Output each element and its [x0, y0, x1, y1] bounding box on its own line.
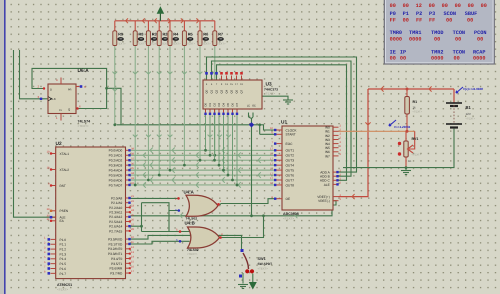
svg-text:OUT6: OUT6 [286, 173, 295, 177]
svg-text:R5: R5 [188, 31, 194, 36]
svg-text:<TEXT>: <TEXT> [413, 111, 423, 114]
svg-text:D: D [50, 88, 52, 92]
svg-text:U2: U2 [56, 141, 62, 147]
svg-text:P3.2/INT0: P3.2/INT0 [108, 247, 123, 251]
svg-text:<TEXT>: <TEXT> [216, 43, 226, 46]
svg-text:P1.5: P1.5 [60, 262, 67, 266]
svg-text:00: 00 [446, 18, 452, 24]
svg-text:00: 00 [400, 56, 406, 62]
svg-text:R3: R3 [152, 31, 158, 36]
svg-text:1K: 1K [408, 159, 412, 163]
svg-text:D1: D1 [208, 102, 212, 106]
svg-text:IE: IE [390, 49, 396, 55]
svg-text:P0: P0 [390, 11, 396, 17]
svg-text:V=+1.23031: V=+1.23031 [394, 125, 411, 129]
svg-text:B1: B1 [466, 105, 472, 110]
svg-text:IP: IP [400, 49, 406, 55]
svg-text:LE: LE [247, 105, 250, 108]
svg-text:12V: 12V [466, 112, 471, 116]
svg-text:D4: D4 [222, 102, 226, 106]
svg-text:P1.1: P1.1 [60, 243, 67, 247]
svg-text:P1.7: P1.7 [60, 272, 67, 276]
svg-text:P1.0: P1.0 [60, 238, 67, 242]
svg-text:IN7: IN7 [325, 154, 330, 158]
svg-text:P3.0/RXD: P3.0/RXD [108, 238, 123, 242]
svg-text:<TEXT>: <TEXT> [57, 288, 68, 292]
svg-text:ADC0808: ADC0808 [283, 212, 299, 216]
svg-text:0000: 0000 [390, 36, 402, 42]
svg-text:00: 00 [477, 36, 483, 42]
svg-text:Q4: Q4 [225, 89, 229, 93]
svg-text:SBUF: SBUF [465, 11, 477, 17]
svg-text:EOC: EOC [286, 142, 294, 146]
svg-text:P3.4/T0: P3.4/T0 [111, 257, 122, 261]
svg-text:R1: R1 [413, 100, 418, 104]
svg-text:SW1: SW1 [258, 257, 266, 261]
svg-text:OUT1: OUT1 [286, 149, 295, 153]
svg-text:P3.5/T1: P3.5/T1 [111, 262, 122, 266]
svg-text:<TEXT>: <TEXT> [258, 267, 269, 271]
svg-text:D5: D5 [226, 102, 230, 106]
svg-text:P3: P3 [429, 11, 435, 17]
svg-text:00: 00 [403, 3, 409, 9]
svg-text:<TEXT>: <TEXT> [185, 43, 195, 46]
svg-text:U4:A: U4:A [184, 190, 195, 195]
svg-text:PR: PR [68, 89, 72, 92]
svg-text:OE: OE [252, 105, 256, 108]
svg-text:P0.7/AD7: P0.7/AD7 [109, 183, 123, 187]
svg-text:Q7: Q7 [240, 89, 244, 93]
svg-text:TMOD: TMOD [431, 30, 443, 36]
svg-text:12: 12 [416, 3, 422, 9]
svg-text:TMR1: TMR1 [409, 30, 421, 36]
svg-text:Q3: Q3 [220, 89, 224, 93]
svg-text:U4:B: U4:B [185, 221, 195, 226]
svg-text:P2.7/A15: P2.7/A15 [109, 229, 122, 233]
svg-text:74LS74: 74LS74 [78, 120, 91, 124]
svg-text:AT89C51: AT89C51 [57, 283, 72, 287]
svg-text:Q1: Q1 [210, 89, 214, 93]
svg-text:P2.2/A10: P2.2/A10 [109, 206, 122, 210]
svg-text:00: 00 [390, 56, 396, 62]
svg-text:0000: 0000 [473, 56, 485, 62]
svg-text:ALE: ALE [324, 183, 330, 187]
svg-text:<TEXT>: <TEXT> [264, 92, 275, 96]
svg-text:R4: R4 [173, 31, 179, 36]
svg-text:P1.2: P1.2 [60, 248, 67, 252]
svg-text:P2.3/A11: P2.3/A11 [109, 211, 122, 215]
svg-text:P1: P1 [403, 11, 409, 17]
svg-text:Q6: Q6 [235, 89, 239, 93]
svg-text:FF: FF [390, 18, 396, 24]
svg-text:00: 00 [454, 56, 460, 62]
svg-text:D3: D3 [217, 102, 221, 106]
svg-text:R7: R7 [218, 31, 223, 36]
svg-text:U1: U1 [281, 120, 287, 126]
svg-text:0000: 0000 [431, 56, 443, 62]
svg-text:OE: OE [286, 197, 291, 201]
svg-text:OUT4: OUT4 [286, 164, 295, 168]
svg-text:Q5: Q5 [230, 89, 234, 93]
svg-text:XTAL2: XTAL2 [60, 168, 70, 172]
svg-text:P3.3/INT1: P3.3/INT1 [108, 252, 123, 256]
svg-text:00: 00 [455, 36, 461, 42]
svg-text:RV1: RV1 [412, 137, 419, 141]
svg-text:P2.0/A8: P2.0/A8 [111, 196, 123, 200]
svg-text:D2: D2 [213, 102, 217, 106]
svg-text:00: 00 [390, 3, 396, 9]
svg-text:Q2: Q2 [215, 89, 219, 93]
svg-text:00: 00 [467, 18, 473, 24]
svg-text:<TEXT>: <TEXT> [187, 252, 198, 256]
svg-text:P0.1/AD1: P0.1/AD1 [109, 154, 123, 158]
svg-text:00: 00 [468, 3, 474, 9]
svg-text:V(v)=+11.9928: V(v)=+11.9928 [463, 87, 483, 91]
svg-text:<TEXT>: <TEXT> [78, 124, 89, 128]
svg-text:<TEXT>: <TEXT> [283, 217, 294, 221]
svg-text:<TEXT>: <TEXT> [136, 43, 146, 46]
svg-text:RST: RST [60, 184, 66, 188]
svg-text:P0.6/AD6: P0.6/AD6 [109, 178, 123, 182]
svg-text:P0.0/AD0: P0.0/AD0 [109, 149, 123, 153]
svg-text:RCAP: RCAP [473, 49, 485, 55]
svg-text:PSEN: PSEN [60, 209, 69, 213]
svg-text:P1.6: P1.6 [60, 267, 67, 271]
svg-text:<TEXT>: <TEXT> [116, 43, 126, 46]
svg-text:<TEXT>: <TEXT> [201, 43, 211, 46]
svg-text:P2.4/A12: P2.4/A12 [109, 215, 122, 219]
svg-text:P2.5/A13: P2.5/A13 [109, 220, 122, 224]
svg-text:0000: 0000 [409, 36, 421, 42]
svg-text:00: 00 [442, 3, 448, 9]
svg-text:P0.5/AD5: P0.5/AD5 [109, 173, 123, 177]
svg-text:P3.1/TXD: P3.1/TXD [108, 242, 123, 246]
svg-text:P1.4: P1.4 [60, 257, 67, 261]
svg-text:VREF(-): VREF(-) [318, 199, 330, 203]
svg-text:TMR2: TMR2 [431, 49, 443, 55]
svg-text:<TEXT>: <TEXT> [412, 154, 422, 157]
svg-text:P2.1/A9: P2.1/A9 [111, 201, 123, 205]
svg-text:D6: D6 [231, 102, 235, 106]
svg-text:D0: D0 [204, 102, 208, 106]
svg-text:P3.6/WR: P3.6/WR [110, 267, 123, 271]
svg-text:P1.3: P1.3 [60, 252, 67, 256]
svg-text:1k: 1k [413, 106, 417, 110]
svg-text:00: 00 [455, 3, 461, 9]
svg-text:U6:A: U6:A [78, 68, 90, 74]
svg-text:TMR0: TMR0 [390, 30, 402, 36]
svg-text:TCON: TCON [453, 30, 465, 36]
svg-text:SCON: SCON [444, 11, 456, 17]
svg-text:00: 00 [434, 36, 440, 42]
svg-text:OUT3: OUT3 [286, 159, 295, 163]
svg-text:P3.7/RD: P3.7/RD [110, 271, 123, 275]
svg-text:XTAL1: XTAL1 [60, 152, 70, 156]
svg-text:D7: D7 [235, 102, 239, 106]
svg-text:<TEXT>: <TEXT> [466, 118, 476, 121]
svg-text:P0.2/AD2: P0.2/AD2 [109, 159, 123, 163]
svg-text:PCON: PCON [474, 30, 486, 36]
svg-text:R2: R2 [163, 31, 169, 36]
svg-text:TCON: TCON [453, 49, 465, 55]
svg-text:P2.6/A14: P2.6/A14 [109, 225, 122, 229]
svg-text:OUT2: OUT2 [286, 154, 295, 158]
svg-text:FF: FF [416, 18, 422, 24]
svg-text:OUT8: OUT8 [286, 183, 295, 187]
svg-text:Q0: Q0 [205, 89, 209, 93]
svg-text:START: START [286, 133, 296, 137]
svg-text:00: 00 [403, 18, 409, 24]
svg-text:<TEXT>: <TEXT> [171, 43, 181, 46]
svg-text:SW-SPDT: SW-SPDT [258, 262, 273, 266]
svg-text:00: 00 [429, 3, 435, 9]
svg-text:P0.4/AD4: P0.4/AD4 [109, 169, 123, 173]
svg-text:OUT5: OUT5 [286, 169, 295, 173]
svg-text:P2: P2 [416, 11, 422, 17]
svg-text:P0.3/AD3: P0.3/AD3 [109, 164, 123, 168]
svg-text:R6: R6 [203, 31, 209, 36]
svg-text:FF: FF [429, 18, 435, 24]
svg-text:R8: R8 [139, 31, 145, 36]
svg-text:OUT7: OUT7 [286, 178, 295, 182]
svg-text:R9: R9 [118, 31, 124, 36]
svg-text:00: 00 [481, 3, 487, 9]
